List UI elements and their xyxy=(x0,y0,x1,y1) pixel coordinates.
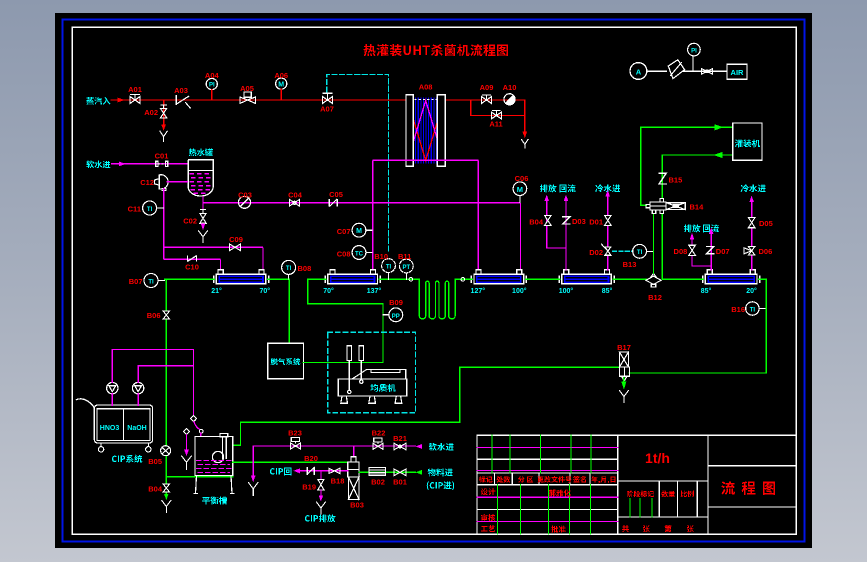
title text xyxy=(364,44,508,56)
svg-text:D03: D03 xyxy=(572,217,586,226)
instrument C11 (TI) xyxy=(143,201,157,215)
svg-text:A11: A11 xyxy=(489,120,502,129)
wire pump discharge down xyxy=(163,188,165,259)
svg-text:TC: TC xyxy=(355,252,364,258)
svg-text:PI: PI xyxy=(691,48,697,54)
stage row texts xyxy=(627,490,654,497)
drain funnel xyxy=(162,501,171,513)
red diagonal V xyxy=(408,100,444,161)
flow arrow up xyxy=(605,190,610,197)
svg-text:A06: A06 xyxy=(274,71,288,80)
steam trap A10 xyxy=(504,94,515,105)
upper green columns xyxy=(492,435,591,473)
air compressor circle xyxy=(630,63,647,80)
header texts xyxy=(479,476,493,483)
plate pack blue lines xyxy=(416,98,437,164)
control valve A05 xyxy=(240,92,256,103)
valve B06 xyxy=(163,311,170,319)
svg-text:TI: TI xyxy=(148,279,154,285)
pump C03 xyxy=(239,196,251,208)
casters xyxy=(98,443,151,452)
valve B15 (Z) xyxy=(659,173,666,184)
heater section bar5 xyxy=(701,270,760,295)
feed pump B03 xyxy=(348,457,359,500)
svg-text:20°: 20° xyxy=(746,287,757,295)
svg-text:A02: A02 xyxy=(144,108,158,117)
hose into tank xyxy=(194,422,200,430)
balance tank body xyxy=(194,434,234,494)
node xyxy=(461,278,465,282)
svg-text:A08: A08 xyxy=(419,83,433,92)
label 冷水进 xyxy=(595,184,620,192)
heater section bar3 xyxy=(471,270,527,295)
magenta diagonal peak xyxy=(408,101,444,162)
svg-text:C07: C07 xyxy=(337,227,351,236)
wire B12 risers xyxy=(654,214,663,280)
svg-text:C06: C06 xyxy=(515,174,529,183)
wire pump suctions xyxy=(112,394,138,405)
svg-text:D02: D02 xyxy=(589,248,603,257)
control signal dashed line xyxy=(327,74,389,252)
flow arrow right xyxy=(715,124,724,130)
wire drain/return bar5 left xyxy=(692,233,711,270)
label 软水进 xyxy=(86,161,110,169)
svg-text:B11: B11 xyxy=(398,252,411,261)
hot water tank xyxy=(188,160,213,196)
svg-text:B13: B13 xyxy=(623,260,637,269)
flow arrow up xyxy=(564,195,569,202)
svg-text:A03: A03 xyxy=(174,86,188,95)
cart handle xyxy=(77,399,95,408)
svg-text:B23: B23 xyxy=(288,428,302,437)
wire degas to homogenizer xyxy=(303,279,383,362)
heater section bar4 xyxy=(559,270,614,295)
svg-text:21°: 21° xyxy=(211,287,222,295)
valve A01 xyxy=(130,95,140,104)
wire feed line xyxy=(359,471,416,473)
instrument B08 (TI) xyxy=(282,260,296,274)
left header bar xyxy=(406,95,413,167)
svg-text:C01: C01 xyxy=(155,152,169,161)
svg-text:A05: A05 xyxy=(240,84,254,93)
drain funnel xyxy=(182,456,192,470)
coupling diamond xyxy=(191,416,197,422)
valve D02 xyxy=(602,244,611,255)
svg-text:B15: B15 xyxy=(669,175,683,184)
heater section bar1 xyxy=(211,270,270,295)
drain arrow xyxy=(319,495,324,501)
svg-text:B02: B02 xyxy=(371,478,385,487)
svg-text:M: M xyxy=(517,185,523,194)
valve B22 xyxy=(373,438,383,449)
valve D03 (Z) xyxy=(563,217,570,224)
wire hot water to bar1 left xyxy=(164,259,221,269)
wire A02 branch xyxy=(163,100,165,126)
svg-text:A: A xyxy=(636,68,642,77)
dosing pump 2 xyxy=(132,382,143,393)
svg-text:TI: TI xyxy=(286,266,292,272)
svg-text:D05: D05 xyxy=(759,219,773,228)
instrument B10 (TI) xyxy=(382,259,396,273)
homogenizer machine 均质机 xyxy=(338,346,407,404)
drain funnel xyxy=(160,131,167,141)
valve A11 xyxy=(491,110,501,119)
label CIP回 xyxy=(270,468,291,476)
label CIP排放 xyxy=(305,514,335,522)
svg-text:B18: B18 xyxy=(331,477,345,486)
drain arrow xyxy=(251,476,256,482)
flow arrow left xyxy=(293,468,300,473)
flow arrow up xyxy=(690,233,695,240)
svg-text:B03: B03 xyxy=(350,501,364,510)
instrument B07 (TI) xyxy=(144,274,158,288)
wire soft water xyxy=(111,163,188,165)
svg-text:NaOH: NaOH xyxy=(127,425,146,432)
check valve C10 xyxy=(188,256,197,262)
dosing pump 1 xyxy=(107,382,118,393)
left table magenta rows xyxy=(477,447,618,521)
wire CIP return long xyxy=(233,279,767,445)
wire drain/return bar4 left xyxy=(547,200,566,270)
CIP cart body xyxy=(94,405,152,443)
valve C04 xyxy=(289,200,299,207)
header cell dividers xyxy=(495,473,591,485)
svg-text:70°: 70° xyxy=(260,287,271,295)
instrument A04 (PI) xyxy=(206,78,217,89)
check valve B19n xyxy=(307,468,314,475)
svg-text:A04: A04 xyxy=(205,71,220,80)
valve D08 xyxy=(689,245,696,255)
flow arrow xyxy=(118,98,125,103)
svg-text:C09: C09 xyxy=(229,235,243,244)
drain arrow A02 xyxy=(161,125,166,131)
flow arrow left xyxy=(416,470,423,475)
svg-text:C02: C02 xyxy=(183,217,197,226)
instrument C07 (M) xyxy=(352,223,366,237)
label 软水进 xyxy=(429,443,454,451)
valve D06 xyxy=(744,247,755,255)
steam trap B17 xyxy=(619,352,629,381)
valve B19 xyxy=(318,479,324,490)
blue frame xyxy=(63,20,805,542)
svg-text:B21: B21 xyxy=(393,434,407,443)
svg-text:B08: B08 xyxy=(298,264,312,273)
flow arrow up xyxy=(749,196,754,203)
label 热水罐 xyxy=(189,149,213,157)
white border xyxy=(72,27,796,534)
svg-text:B20: B20 xyxy=(304,454,318,463)
wire tank outlet xyxy=(203,196,521,213)
left table white rows xyxy=(477,459,618,509)
heater section bar2 xyxy=(323,270,381,295)
instrument B16 (TI) xyxy=(746,302,759,315)
wire filling feed xyxy=(641,127,733,205)
svg-text:B07: B07 xyxy=(129,277,143,286)
svg-text:PP: PP xyxy=(392,314,400,320)
svg-text:TI: TI xyxy=(147,207,153,213)
svg-text:C10: C10 xyxy=(185,263,199,272)
svg-text:TI: TI xyxy=(386,264,392,270)
wire pump suction xyxy=(167,181,189,183)
instrument C08 (TC) xyxy=(352,246,366,260)
svg-text:B10: B10 xyxy=(374,252,388,261)
label (CIP进) xyxy=(427,481,455,490)
valve B04b xyxy=(545,215,552,225)
instrument B11 (PT) xyxy=(399,259,413,273)
flow arrow up xyxy=(544,195,549,202)
svg-text:70°: 70° xyxy=(323,287,334,295)
svg-text:B04: B04 xyxy=(148,484,163,493)
label 排放 回流 xyxy=(540,184,557,192)
wire tank to feed pump xyxy=(233,461,348,463)
svg-text:B04: B04 xyxy=(529,217,544,226)
flow arrow left xyxy=(714,152,723,158)
svg-text:127°: 127° xyxy=(471,287,486,295)
air valve xyxy=(701,69,712,75)
right column rows xyxy=(708,466,796,507)
svg-text:B01: B01 xyxy=(393,478,407,487)
pump C06 (M) xyxy=(513,182,527,196)
valve B01 xyxy=(394,469,406,476)
label 物料进 xyxy=(428,468,453,476)
hose connector xyxy=(199,429,203,433)
label 蒸汽入 xyxy=(86,97,110,105)
instrument A06 (M) xyxy=(276,78,287,89)
wire filling return xyxy=(662,155,732,198)
wire CIP supply vertical xyxy=(166,279,232,476)
back pressure valve B12 xyxy=(646,273,661,287)
svg-text:D01: D01 xyxy=(589,217,603,226)
svg-text:D07: D07 xyxy=(716,247,730,256)
flow arrow up xyxy=(709,228,714,235)
svg-text:B12: B12 xyxy=(648,293,662,302)
svg-text:TI: TI xyxy=(637,250,643,256)
lower green columns xyxy=(498,485,591,534)
right header bar xyxy=(437,95,445,167)
drawing name 流程图 xyxy=(721,481,775,495)
sheet row texts xyxy=(622,525,629,532)
air filter xyxy=(668,60,684,79)
label 冷水进 (right) xyxy=(741,184,766,192)
filter B02 xyxy=(369,468,386,476)
valve D05 xyxy=(748,218,755,228)
flow arrow left xyxy=(416,444,423,449)
aseptic divert valve B14 xyxy=(646,198,685,213)
wire soft water CIP xyxy=(253,446,415,477)
wire product line segments xyxy=(165,278,767,280)
coupling C01 xyxy=(156,161,168,166)
svg-text:M: M xyxy=(356,228,362,235)
wire dosing lines xyxy=(112,349,193,416)
pump C12 xyxy=(155,175,168,191)
svg-text:B09: B09 xyxy=(389,298,403,307)
svg-text:100°: 100° xyxy=(512,287,527,295)
filling machine 灌装机 xyxy=(733,123,762,160)
middle column rows xyxy=(618,481,708,517)
valve A02 xyxy=(160,105,166,118)
plate pack top dashes xyxy=(415,98,438,100)
signal dashed to B13 xyxy=(613,250,633,252)
svg-text:A09: A09 xyxy=(480,83,494,92)
valve B18 xyxy=(329,468,340,473)
drain arrow xyxy=(164,494,169,500)
svg-text:PI: PI xyxy=(209,83,215,89)
drain arrow C02 xyxy=(201,224,206,230)
AIR box xyxy=(727,64,747,79)
valve B23 xyxy=(291,438,301,449)
tank liquid dashes xyxy=(190,174,213,194)
wire to bar3 xyxy=(520,203,522,270)
drain funnel xyxy=(198,231,207,244)
svg-text:PT: PT xyxy=(402,265,410,271)
drain funnel xyxy=(316,502,325,514)
drain funnel xyxy=(619,391,628,403)
wire bypass A11 xyxy=(471,100,525,134)
svg-text:M: M xyxy=(278,81,284,88)
svg-text:1t/h: 1t/h xyxy=(645,450,670,466)
label 排放 回流 (bar5) xyxy=(684,224,701,232)
wire steam main xyxy=(111,99,525,101)
valve A09 xyxy=(482,95,492,103)
wire cold water bar5 right xyxy=(751,201,753,270)
flow arrow xyxy=(119,162,126,167)
degasser box 脱气系统 xyxy=(268,343,304,378)
tank liquid dashes xyxy=(197,460,232,472)
svg-text:B14: B14 xyxy=(690,202,705,211)
check valve C05 xyxy=(329,199,337,207)
svg-text:A01: A01 xyxy=(128,85,142,94)
wire cold water bar4 right xyxy=(607,196,609,270)
row labels xyxy=(481,488,495,495)
valve B04 drain xyxy=(165,477,167,494)
wire spare drain xyxy=(186,435,188,451)
title block outer xyxy=(477,435,796,534)
valve D07 (Z) xyxy=(707,246,714,253)
node xyxy=(409,278,413,282)
check valve A03 xyxy=(176,96,190,109)
valve B21 xyxy=(394,443,406,450)
valve C02 xyxy=(200,209,206,223)
svg-text:85°: 85° xyxy=(602,287,613,295)
svg-text:A10: A10 xyxy=(503,83,517,92)
wire xyxy=(647,70,727,72)
svg-text:B16: B16 xyxy=(731,305,745,314)
valve A07 xyxy=(323,93,333,103)
svg-text:C08: C08 xyxy=(337,249,351,258)
svg-text:C04: C04 xyxy=(288,190,303,199)
svg-text:B22: B22 xyxy=(372,429,386,438)
drain arrow xyxy=(621,381,626,389)
svg-text:B05: B05 xyxy=(148,457,162,466)
svg-text:B06: B06 xyxy=(147,311,161,320)
svg-text:B17: B17 xyxy=(617,343,631,352)
svg-text:TI: TI xyxy=(750,307,756,313)
svg-text:C12: C12 xyxy=(140,178,154,187)
spare coupling diamond xyxy=(184,428,190,434)
svg-text:B19: B19 xyxy=(302,483,316,492)
instrument B13 (TI) xyxy=(633,244,647,258)
drain funnel xyxy=(249,483,258,496)
svg-text:100°: 100° xyxy=(559,287,574,295)
svg-text:C05: C05 xyxy=(329,190,343,199)
holding coil xyxy=(419,279,455,319)
svg-text:137°: 137° xyxy=(367,287,382,295)
svg-text:D06: D06 xyxy=(759,247,773,256)
valve B05 xyxy=(161,446,171,456)
svg-text:HNO3: HNO3 xyxy=(100,425,120,432)
svg-text:AIR: AIR xyxy=(731,68,745,77)
wire hot water to bar1 right xyxy=(164,247,263,269)
svg-text:C11: C11 xyxy=(128,205,141,214)
valve C09 xyxy=(230,244,241,251)
svg-text:C03: C03 xyxy=(238,190,252,199)
wire product outlet bottom xyxy=(373,160,479,269)
svg-text:D08: D08 xyxy=(674,247,688,256)
homogenizer dashed enclosure xyxy=(328,332,416,413)
wire to degasser xyxy=(288,279,290,343)
condensate arrow xyxy=(523,132,528,139)
wire CIP drain branch xyxy=(320,471,322,479)
svg-text:A07: A07 xyxy=(320,105,334,114)
drain funnel xyxy=(521,139,528,149)
valve D01 xyxy=(605,215,612,225)
wire CIP return xyxy=(300,470,348,472)
svg-text:85°: 85° xyxy=(701,287,712,295)
instrument PI xyxy=(692,56,694,71)
instrument B09 (PP) xyxy=(383,314,389,316)
